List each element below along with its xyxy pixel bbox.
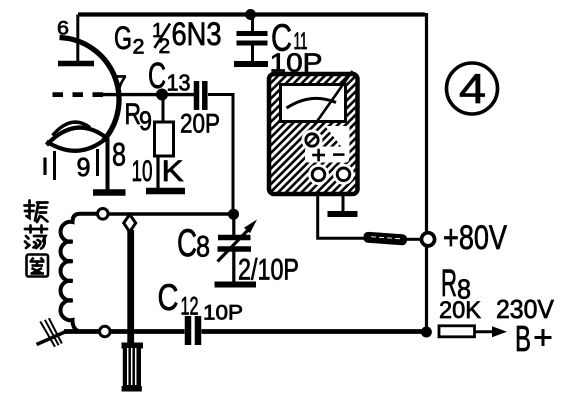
svg-text:7: 7: [113, 71, 127, 99]
svg-text:C: C: [158, 277, 179, 318]
svg-text:2/10P: 2/10P: [238, 254, 299, 287]
svg-text:13: 13: [167, 70, 191, 96]
svg-text:20P: 20P: [180, 109, 220, 139]
svg-text:K: K: [162, 155, 184, 188]
svg-text:9: 9: [139, 106, 152, 136]
svg-text:10P: 10P: [270, 48, 323, 78]
svg-text:8: 8: [112, 137, 126, 173]
svg-text:8: 8: [196, 231, 210, 264]
svg-text:4: 4: [459, 65, 486, 112]
svg-text:10P: 10P: [203, 302, 243, 325]
svg-text:20K: 20K: [439, 297, 481, 324]
svg-text:2: 2: [133, 36, 145, 59]
svg-text:+80V: +80V: [443, 219, 507, 257]
svg-text:6: 6: [57, 19, 69, 40]
svg-text:C: C: [177, 222, 197, 265]
svg-text:10: 10: [132, 155, 153, 188]
svg-text:B: B: [515, 318, 531, 359]
svg-text:9: 9: [77, 152, 91, 182]
svg-text:12: 12: [181, 293, 199, 321]
svg-text:G: G: [114, 20, 132, 56]
svg-text:6N3: 6N3: [172, 16, 222, 52]
svg-text:C: C: [148, 55, 166, 96]
